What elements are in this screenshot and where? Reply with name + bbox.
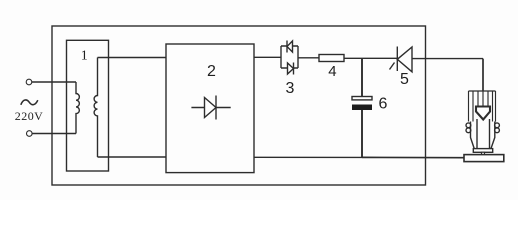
diode D3b (bottom, pointing right) bbox=[288, 63, 294, 74]
wire network 3 to resistor 4 bbox=[298, 57, 319, 59]
wire resistor to thyristor 5 bbox=[344, 57, 397, 59]
svg-text:1: 1 bbox=[81, 49, 88, 64]
thyristor 5 bbox=[396, 47, 398, 72]
spark plug base plate bbox=[464, 155, 504, 162]
svg-text:220V: 220V bbox=[15, 109, 43, 123]
svg-text:4: 4 bbox=[328, 63, 336, 80]
AC source terminal top bbox=[26, 79, 32, 85]
wire bottom terminal to primary bbox=[32, 133, 76, 135]
bidirectional diode network 3 frame bbox=[280, 46, 282, 68]
wire thyristor to spark plug (top rail) bbox=[412, 58, 483, 60]
AC symbol ~ bbox=[21, 100, 38, 105]
wire capacitor to bottom rail bbox=[361, 110, 363, 157]
transformer primary winding bbox=[76, 82, 79, 134]
wire junction to plug base plate bbox=[362, 156, 464, 158]
svg-text:6: 6 bbox=[379, 96, 388, 113]
diode D3a (top, pointing left) bbox=[286, 41, 288, 53]
spark plug gasket rings left bbox=[466, 123, 471, 128]
outer enclosure box bbox=[52, 26, 426, 185]
transformer box 1 bbox=[67, 40, 109, 171]
spark plug terminal (pentagon) bbox=[476, 107, 490, 120]
wire box 2 to network 3 bbox=[254, 56, 281, 58]
wire secondary bottom to box 2 bbox=[98, 156, 167, 158]
diode symbol in box 2 bbox=[191, 107, 230, 109]
wire junction to capacitor 6 bbox=[361, 58, 363, 96]
spark plug gasket rings right bbox=[495, 123, 500, 128]
resistor 4 bbox=[319, 55, 344, 62]
wire secondary top to box 2 bbox=[98, 57, 167, 59]
bottom rail to spark plug base bbox=[254, 156, 362, 158]
wire top terminal to primary bbox=[32, 81, 76, 83]
svg-text:3: 3 bbox=[286, 80, 295, 97]
capacitor 6 top plate bbox=[352, 97, 372, 100]
rectifier box 2 bbox=[166, 44, 254, 173]
capacitor 6 bottom plate (solid) bbox=[352, 105, 372, 111]
spark plug center column bbox=[476, 119, 478, 149]
spark plug body sides bbox=[471, 122, 475, 149]
transformer secondary winding bbox=[94, 58, 97, 158]
svg-text:5: 5 bbox=[400, 71, 409, 88]
svg-text:2: 2 bbox=[207, 63, 216, 80]
spark plug stem bbox=[482, 152, 485, 154]
spark plug flange bbox=[473, 149, 492, 153]
AC source terminal bottom bbox=[27, 131, 33, 137]
spark plug insulator block bbox=[469, 91, 496, 122]
